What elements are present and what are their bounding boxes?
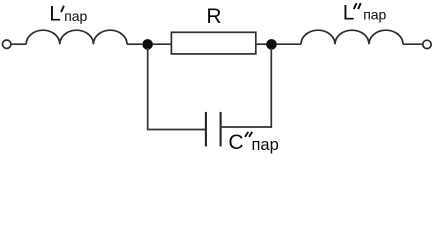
capacitor C1 (C''пар) left plate bbox=[205, 112, 207, 146]
wire bbox=[127, 43, 142, 45]
svg-text:C: C bbox=[228, 131, 243, 154]
wire (capacitor to bottom right) bbox=[222, 126, 273, 128]
terminal right bbox=[423, 40, 431, 48]
wire (bottom left to capacitor) bbox=[147, 129, 205, 131]
svg-text:пар: пар bbox=[252, 136, 279, 154]
wire (left vertical branch) bbox=[147, 48, 149, 130]
resistor R bbox=[171, 32, 255, 54]
wire bbox=[276, 43, 301, 45]
terminal left bbox=[3, 40, 11, 48]
svg-text:L: L bbox=[49, 3, 61, 26]
wire bbox=[11, 43, 26, 45]
node A (junction dot left) bbox=[143, 40, 153, 50]
wire bbox=[403, 43, 422, 45]
svg-text:L: L bbox=[343, 2, 355, 25]
wire bbox=[256, 43, 267, 45]
svg-text:R: R bbox=[206, 5, 221, 28]
inductor L2 (L''пар) bbox=[301, 30, 403, 44]
wire (right vertical branch) bbox=[270, 48, 272, 128]
svg-text:пар: пар bbox=[64, 8, 87, 24]
inductor L1 (L'пар) bbox=[26, 30, 127, 44]
wire bbox=[152, 43, 171, 45]
svg-text:пар: пар bbox=[363, 7, 386, 23]
capacitor C1 right plate bbox=[220, 112, 222, 146]
node B (junction dot right) bbox=[267, 40, 277, 50]
